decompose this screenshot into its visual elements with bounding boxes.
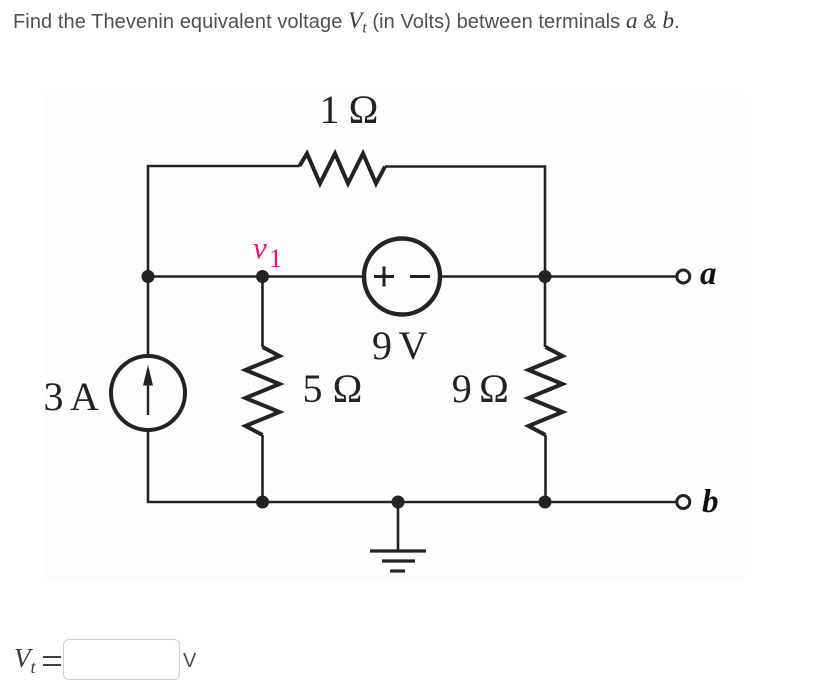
plus sign	[374, 267, 394, 287]
wire right rail lower	[544, 435, 547, 502]
wire 5-ohm branch	[261, 277, 264, 503]
circuit figure	[45, 93, 745, 580]
node dot bottom-9ohm	[539, 496, 552, 509]
minus sign	[410, 275, 430, 278]
svg-text:3: 3	[45, 374, 64, 419]
ground bar 3	[390, 569, 405, 572]
svg-text:9: 9	[372, 323, 392, 368]
terminal b circle	[677, 496, 690, 509]
voltage source V1 9V circle	[364, 239, 440, 315]
svg-text:b: b	[702, 484, 719, 520]
node dot v1	[256, 270, 269, 283]
wire left rail upper and top-left segment	[148, 166, 300, 356]
wire middle horizontal (node A row)	[148, 275, 676, 278]
current source I1 circle	[111, 356, 185, 430]
svg-text:A: A	[70, 374, 99, 419]
node dot bottom-5ohm	[256, 496, 269, 509]
svg-text:V: V	[399, 323, 428, 368]
node dot right-middle	[539, 270, 552, 283]
svg-text:Ω: Ω	[333, 366, 363, 411]
current source arrow	[147, 381, 149, 415]
svg-text:9: 9	[452, 366, 472, 411]
svg-text:5: 5	[303, 366, 323, 411]
wire left rail lower and bottom wire	[148, 430, 676, 502]
svg-text:Ω: Ω	[479, 366, 509, 411]
node dot left-middle	[142, 270, 155, 283]
ground bar 1	[370, 549, 426, 552]
resistor R3 9-ohm zigzag	[529, 347, 563, 435]
answer row	[13, 641, 15, 682]
resistor R1 1-ohm zigzag	[300, 154, 386, 184]
ground stem	[397, 502, 400, 551]
node dot bottom-ground	[392, 496, 405, 509]
svg-text:1: 1	[320, 93, 340, 132]
figure background	[45, 93, 745, 580]
resistor R2 5-ohm zigzag	[246, 347, 280, 435]
wire top-right segment and right rail upper	[385, 167, 545, 348]
ground bar 2	[382, 559, 415, 562]
terminal a circle	[677, 270, 690, 283]
svg-text:Ω: Ω	[349, 93, 379, 132]
svg-text:v: v	[253, 230, 267, 265]
svg-text:1: 1	[269, 244, 282, 273]
svg-text:a: a	[700, 256, 717, 292]
header question text	[13, 8, 680, 35]
